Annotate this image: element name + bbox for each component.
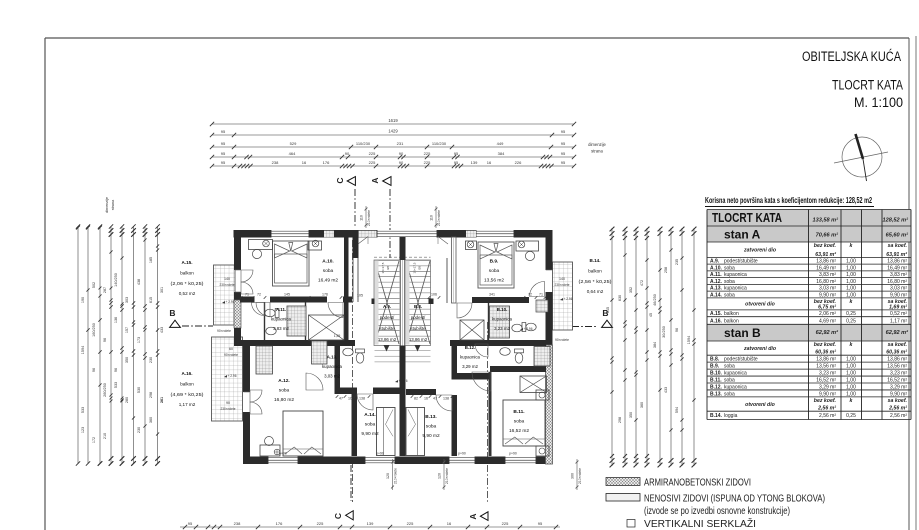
svg-text:449: 449 <box>497 141 504 146</box>
svg-text:13,56 m²: 13,56 m² <box>816 364 836 370</box>
svg-text:3,29 m²: 3,29 m² <box>890 384 907 390</box>
svg-text:kupaonica: kupaonica <box>492 317 513 322</box>
svg-text:45: 45 <box>649 313 653 317</box>
svg-text:136: 136 <box>114 317 118 323</box>
svg-text:176: 176 <box>276 521 283 526</box>
svg-text:1619: 1619 <box>388 118 398 123</box>
svg-text:B.9.: B.9. <box>490 259 499 265</box>
svg-text:138: 138 <box>443 397 449 401</box>
svg-text:B.11.: B.11. <box>513 409 524 415</box>
svg-text:95: 95 <box>221 141 226 146</box>
svg-text:63,91 m²: 63,91 m² <box>815 252 836 258</box>
svg-text:95: 95 <box>561 151 566 156</box>
svg-text:96: 96 <box>675 328 679 332</box>
svg-text:16,80 m²: 16,80 m² <box>887 279 907 285</box>
svg-text:VERTIKALNI SERKLAŽI: VERTIKALNI SERKLAŽI <box>644 517 756 530</box>
svg-text:A.10.: A.10. <box>322 259 333 265</box>
svg-text:kupaonica: kupaonica <box>460 355 481 360</box>
svg-text:120: 120 <box>438 473 442 479</box>
svg-text:13,56 m²: 13,56 m² <box>887 364 907 370</box>
svg-text:96: 96 <box>114 368 118 372</box>
svg-text:Korisna neto površina kata s k: Korisna neto površina kata s koeficijent… <box>705 195 872 205</box>
svg-text:A: A <box>468 513 478 519</box>
svg-text:3,83 m²: 3,83 m² <box>890 272 907 278</box>
svg-text:230×rolete: 230×rolete <box>220 283 235 287</box>
svg-text:/28: /28 <box>418 266 422 271</box>
svg-text:90×rolete: 90×rolete <box>555 338 569 342</box>
svg-text:95: 95 <box>188 521 193 526</box>
svg-text:172: 172 <box>92 437 96 443</box>
svg-text:16,80 m2: 16,80 m2 <box>274 397 294 403</box>
svg-text:615: 615 <box>606 307 610 313</box>
svg-text:3,83 m2: 3,83 m2 <box>273 326 289 331</box>
svg-text:13,86 m2: 13,86 m2 <box>409 337 428 342</box>
svg-text:128,52 m²: 128,52 m² <box>883 217 909 224</box>
svg-text:podest/stubište: podest/stubište <box>724 259 758 265</box>
svg-text:235: 235 <box>675 259 679 265</box>
svg-text:225: 225 <box>317 521 324 526</box>
svg-text:0,52 m2: 0,52 m2 <box>179 291 196 296</box>
svg-text:1,00: 1,00 <box>846 272 856 278</box>
svg-text:533: 533 <box>81 407 85 413</box>
svg-text:3,23 m2: 3,23 m2 <box>494 326 510 331</box>
svg-text:(4,69 * k0,25): (4,69 * k0,25) <box>171 392 205 397</box>
svg-text:0,25: 0,25 <box>846 318 856 324</box>
svg-text:1429: 1429 <box>388 129 398 134</box>
svg-text:soba: soba <box>489 268 500 274</box>
svg-text:46/250: 46/250 <box>653 294 657 306</box>
svg-text:433: 433 <box>160 327 164 333</box>
svg-text:1,17 m2: 1,17 m2 <box>179 402 196 407</box>
svg-text:zatvoreni dio: zatvoreni dio <box>743 248 776 254</box>
svg-text:2,56 m²: 2,56 m² <box>888 406 907 412</box>
svg-text:287: 287 <box>103 287 107 293</box>
svg-text:533: 533 <box>114 382 118 388</box>
svg-text:podest/stubište: podest/stubište <box>724 357 758 363</box>
svg-text:90: 90 <box>226 401 230 405</box>
svg-text:strana: strana <box>111 199 115 210</box>
svg-text:B.13.: B.13. <box>710 391 723 397</box>
svg-text:71: 71 <box>539 293 543 297</box>
svg-text:1,00: 1,00 <box>846 371 856 377</box>
svg-text:16,49 m²: 16,49 m² <box>887 265 907 271</box>
svg-text:C: C <box>335 177 345 183</box>
svg-text:303: 303 <box>125 297 129 303</box>
svg-text:10: 10 <box>348 397 352 401</box>
svg-text:B.8.: B.8. <box>710 357 720 363</box>
svg-text:B.12.: B.12. <box>465 345 476 350</box>
svg-text:B.14.: B.14. <box>710 413 723 419</box>
svg-text:soba: soba <box>724 279 735 285</box>
svg-text:B.14.: B.14. <box>590 258 601 263</box>
svg-text:145: 145 <box>284 293 290 297</box>
svg-text:226: 226 <box>515 160 522 165</box>
svg-text:otvoreni dio: otvoreni dio <box>745 402 775 408</box>
svg-text:soba: soba <box>724 292 735 298</box>
svg-text:502: 502 <box>92 282 96 288</box>
svg-text:258: 258 <box>664 267 668 273</box>
svg-text:13,56 m2: 13,56 m2 <box>484 278 504 284</box>
svg-text:3,83 m²: 3,83 m² <box>819 272 836 278</box>
svg-text:139: 139 <box>471 160 478 165</box>
svg-text:16: 16 <box>447 521 452 526</box>
svg-text:soba: soba <box>365 422 376 428</box>
svg-text:A.12.: A.12. <box>278 378 289 384</box>
svg-text:384: 384 <box>653 342 657 348</box>
svg-text:16,49 m²: 16,49 m² <box>816 265 836 271</box>
svg-text:70,66 m²: 70,66 m² <box>816 232 839 239</box>
svg-text:13,86 m²: 13,86 m² <box>816 259 836 265</box>
svg-text:soba: soba <box>279 388 290 394</box>
svg-text:225: 225 <box>424 160 431 165</box>
svg-text:OBITELJSKA KUĆA: OBITELJSKA KUĆA <box>802 48 901 65</box>
svg-text:NENOSIVI ZIDOVI (ISPUNA OD YTO: NENOSIVI ZIDOVI (ISPUNA OD YTONG BLOKOVA… <box>644 494 825 505</box>
svg-text:TLOCRT KATA: TLOCRT KATA <box>712 211 782 225</box>
svg-text:298: 298 <box>149 392 153 398</box>
svg-text:p+90: p+90 <box>458 452 466 456</box>
svg-text:p+90: p+90 <box>376 452 384 456</box>
svg-text:soba: soba <box>724 377 735 383</box>
svg-text:300: 300 <box>571 473 575 479</box>
svg-text:A.13.: A.13. <box>327 355 338 360</box>
svg-text:B.10.: B.10. <box>497 307 508 312</box>
svg-text:90: 90 <box>399 151 404 156</box>
svg-text:190: 190 <box>81 297 85 303</box>
svg-text:157: 157 <box>125 327 129 333</box>
svg-text:95: 95 <box>454 160 459 165</box>
svg-text:15×17,5: 15×17,5 <box>413 262 417 273</box>
svg-text:82: 82 <box>414 397 418 401</box>
svg-text:1,00: 1,00 <box>846 286 856 292</box>
svg-text:soba: soba <box>724 391 735 397</box>
svg-text:95: 95 <box>561 129 566 134</box>
svg-text:9,90 m²: 9,90 m² <box>819 292 836 298</box>
svg-text:A.16.: A.16. <box>182 371 193 376</box>
svg-text:90: 90 <box>399 160 404 165</box>
svg-text:105: 105 <box>357 294 363 298</box>
svg-text:1,00: 1,00 <box>846 364 856 370</box>
svg-text:9,90 m2: 9,90 m2 <box>422 433 440 439</box>
svg-text:3,03 m²: 3,03 m² <box>819 286 836 292</box>
svg-text:dimenzije: dimenzije <box>105 197 109 213</box>
svg-text:3,29 m2: 3,29 m2 <box>462 364 478 369</box>
svg-text:3,03 m2: 3,03 m2 <box>324 374 340 379</box>
svg-text:bez koef.: bez koef. <box>814 342 836 348</box>
svg-text:120: 120 <box>386 473 390 479</box>
svg-text:A.10.: A.10. <box>710 265 723 271</box>
svg-text:0,52 m²: 0,52 m² <box>890 311 907 317</box>
svg-text:433: 433 <box>664 387 668 393</box>
svg-text:140: 140 <box>224 277 230 281</box>
svg-text:138: 138 <box>359 397 365 401</box>
svg-text:(2,56 * k0,25): (2,56 * k0,25) <box>579 279 613 284</box>
svg-text:210×rolete: 210×rolete <box>367 210 371 226</box>
svg-text:otvoreni dio: otvoreni dio <box>745 302 775 308</box>
svg-text:1,00: 1,00 <box>846 377 856 383</box>
svg-text:133,58 m²: 133,58 m² <box>813 217 839 224</box>
svg-text:464: 464 <box>289 151 296 156</box>
svg-text:176: 176 <box>323 160 330 165</box>
svg-text:63,91 m²: 63,91 m² <box>886 252 907 258</box>
svg-text:C: C <box>333 513 343 519</box>
svg-text:231: 231 <box>397 141 404 146</box>
svg-text:/28: /28 <box>386 266 390 271</box>
svg-text:kupaonica: kupaonica <box>271 317 292 322</box>
svg-text:A.11.: A.11. <box>276 307 286 312</box>
svg-text:M. 1:100: M. 1:100 <box>854 95 903 111</box>
svg-text:+ 2.96: + 2.96 <box>564 297 573 301</box>
svg-text:3,29 m²: 3,29 m² <box>819 384 836 390</box>
svg-text:2,56 m²: 2,56 m² <box>819 413 836 419</box>
svg-text:238: 238 <box>272 160 279 165</box>
svg-text:16: 16 <box>424 397 428 401</box>
svg-text:1,59: 1,59 <box>334 334 341 338</box>
svg-text:3,03 m²: 3,03 m² <box>890 286 907 292</box>
svg-text:3,23 m²: 3,23 m² <box>890 371 907 377</box>
svg-text:15×17,5: 15×17,5 <box>381 262 385 273</box>
svg-text:65,60 m²: 65,60 m² <box>886 232 909 239</box>
svg-text:230: 230 <box>149 357 153 363</box>
svg-text:B.11.: B.11. <box>710 377 722 383</box>
svg-text:stan A: stan A <box>724 228 761 242</box>
svg-text:472: 472 <box>640 280 644 286</box>
svg-text:bez koef.: bez koef. <box>814 398 836 404</box>
svg-text:balkon: balkon <box>724 311 739 317</box>
svg-text:1,00: 1,00 <box>846 292 856 298</box>
svg-text:90: 90 <box>345 151 350 156</box>
svg-text:238: 238 <box>234 521 241 526</box>
svg-text:210×rolete: 210×rolete <box>445 468 449 484</box>
svg-text:30/250: 30/250 <box>662 326 666 338</box>
svg-text:110/230: 110/230 <box>356 141 371 146</box>
svg-text:A.15.: A.15. <box>182 260 193 265</box>
svg-text:A.15.: A.15. <box>710 311 723 317</box>
svg-text:360: 360 <box>640 402 644 408</box>
svg-text:210: 210 <box>103 433 107 439</box>
svg-text:60,36 m²: 60,36 m² <box>815 350 836 356</box>
svg-text:16,49 m2: 16,49 m2 <box>318 278 338 284</box>
svg-text:615: 615 <box>149 297 153 303</box>
svg-text:13,86 m²: 13,86 m² <box>887 357 907 363</box>
svg-text:230×rolete: 230×rolete <box>221 407 236 411</box>
svg-text:B.10.: B.10. <box>710 371 723 377</box>
svg-text:47: 47 <box>339 397 343 401</box>
svg-text:balkon: balkon <box>180 382 194 387</box>
svg-text:176: 176 <box>322 293 328 297</box>
svg-text:strana: strana <box>591 149 603 154</box>
svg-text:90×rolete: 90×rolete <box>217 329 231 333</box>
svg-text:0,64 m2: 0,64 m2 <box>587 289 604 294</box>
svg-text:podest/: podest/ <box>380 315 395 320</box>
svg-text:9,90 m²: 9,90 m² <box>890 391 907 397</box>
svg-text:210×rolete: 210×rolete <box>437 210 441 226</box>
svg-text:dimenzije: dimenzije <box>588 142 606 147</box>
svg-text:110: 110 <box>430 215 434 221</box>
svg-text:sa koef.: sa koef. <box>888 243 907 249</box>
svg-text:95: 95 <box>221 151 226 156</box>
svg-text:sa koef.: sa koef. <box>888 398 907 404</box>
svg-text:stubište: stubište <box>379 326 395 331</box>
svg-text:225: 225 <box>369 160 376 165</box>
svg-text:529: 529 <box>290 141 297 146</box>
svg-text:72: 72 <box>528 293 532 297</box>
svg-text:6,75 m²: 6,75 m² <box>818 304 836 310</box>
svg-text:sa koef.: sa koef. <box>888 342 907 348</box>
svg-text:95: 95 <box>538 521 543 526</box>
svg-text:A.16.: A.16. <box>710 318 723 324</box>
svg-text:kupaonica: kupaonica <box>724 272 747 278</box>
svg-text:9,90 m²: 9,90 m² <box>819 391 836 397</box>
svg-text:balkon: balkon <box>180 271 194 276</box>
svg-text:kupaonica: kupaonica <box>724 286 747 292</box>
svg-text:soba: soba <box>514 419 525 425</box>
svg-text:438: 438 <box>137 279 141 285</box>
svg-text:16: 16 <box>302 160 307 165</box>
svg-text:soba: soba <box>724 265 735 271</box>
svg-text:225: 225 <box>424 151 431 156</box>
svg-text:47: 47 <box>433 397 437 401</box>
svg-text:95: 95 <box>561 141 566 146</box>
svg-text:A.12.: A.12. <box>710 279 723 285</box>
svg-text:13,86 m2: 13,86 m2 <box>378 337 397 342</box>
svg-text:60: 60 <box>229 347 233 351</box>
svg-text:95: 95 <box>454 151 459 156</box>
svg-text:kupaonica: kupaonica <box>724 384 747 390</box>
svg-text:123: 123 <box>81 427 85 433</box>
svg-text:225: 225 <box>407 521 414 526</box>
svg-text:173: 173 <box>137 337 141 343</box>
svg-text:16,52 m²: 16,52 m² <box>887 377 907 383</box>
svg-text:72: 72 <box>257 293 261 297</box>
svg-text:16,80 m²: 16,80 m² <box>816 279 836 285</box>
svg-text:13,86 m²: 13,86 m² <box>816 357 836 363</box>
svg-text:kupaonica: kupaonica <box>322 364 343 369</box>
svg-text:96: 96 <box>92 368 96 372</box>
svg-text:280: 280 <box>125 397 129 403</box>
svg-text:bez koef.: bez koef. <box>814 243 836 249</box>
svg-text:62,92 m²: 62,92 m² <box>816 329 839 336</box>
svg-text:+ 2.96: + 2.96 <box>226 300 235 304</box>
svg-text:139: 139 <box>367 521 374 526</box>
svg-text:A: A <box>370 177 380 183</box>
svg-text:352: 352 <box>629 287 633 293</box>
svg-text:341: 341 <box>489 293 495 297</box>
svg-text:stan B: stan B <box>724 326 761 340</box>
svg-text:kupaonica: kupaonica <box>724 371 747 377</box>
svg-text:A.14.: A.14. <box>710 292 723 298</box>
svg-text:A.9.: A.9. <box>383 304 391 309</box>
svg-text:4,69 m²: 4,69 m² <box>819 318 836 324</box>
svg-text:1,17 m²: 1,17 m² <box>890 318 907 324</box>
svg-text:225: 225 <box>502 521 509 526</box>
svg-text:1,00: 1,00 <box>846 259 856 265</box>
svg-text:A.14.: A.14. <box>364 412 375 418</box>
svg-text:(izvode se po izvedbi osnovne: (izvode se po izvedbi osnovne konstrukci… <box>644 506 790 517</box>
svg-text:B.8.: B.8. <box>414 304 422 309</box>
svg-text:soba: soba <box>724 364 735 370</box>
svg-text:1,00: 1,00 <box>846 265 856 271</box>
svg-text:zatvoreni dio: zatvoreni dio <box>743 346 776 352</box>
svg-text:230: 230 <box>137 427 141 433</box>
svg-text:210×rolete: 210×rolete <box>394 468 398 484</box>
svg-text:110: 110 <box>360 215 364 221</box>
svg-text:210×rolete: 210×rolete <box>578 468 582 484</box>
svg-text:230×rolete: 230×rolete <box>555 283 570 287</box>
svg-text:soba: soba <box>323 268 334 274</box>
svg-text:loggia: loggia <box>724 413 738 419</box>
svg-text:298: 298 <box>618 417 622 423</box>
svg-text:110/230: 110/230 <box>432 141 447 146</box>
svg-text:140/250: 140/250 <box>114 273 118 287</box>
svg-text:530: 530 <box>137 387 141 393</box>
svg-text:1,00: 1,00 <box>846 357 856 363</box>
svg-text:A.13.: A.13. <box>710 286 723 292</box>
svg-text:1,00: 1,00 <box>846 384 856 390</box>
svg-text:160/250: 160/250 <box>92 323 96 337</box>
svg-text:0,25: 0,25 <box>846 311 856 317</box>
svg-text:balkon: balkon <box>724 318 739 324</box>
svg-text:1,00: 1,00 <box>846 279 856 285</box>
svg-text:balkon: balkon <box>588 269 602 274</box>
svg-text:106: 106 <box>431 293 437 297</box>
svg-text:B: B <box>169 308 175 318</box>
svg-text:(2,06 * k0,25): (2,06 * k0,25) <box>171 281 205 286</box>
svg-text:90×rolete: 90×rolete <box>224 353 238 357</box>
svg-text:360: 360 <box>149 417 153 423</box>
svg-text:260/250: 260/250 <box>103 383 107 397</box>
svg-text:301: 301 <box>160 287 164 293</box>
svg-text:B.9.: B.9. <box>710 364 720 370</box>
svg-text:62,92 m²: 62,92 m² <box>886 329 909 336</box>
svg-text:185: 185 <box>149 257 153 263</box>
svg-text:B.12.: B.12. <box>710 384 723 390</box>
svg-text:1,69 m²: 1,69 m² <box>889 304 907 310</box>
svg-text:16: 16 <box>487 160 492 165</box>
svg-text:350: 350 <box>125 357 129 363</box>
svg-text:225: 225 <box>369 151 376 156</box>
svg-text:71: 71 <box>245 293 249 297</box>
svg-text:2,56 m²: 2,56 m² <box>817 406 836 412</box>
svg-text:95: 95 <box>221 160 226 165</box>
svg-text:16,52 m²: 16,52 m² <box>816 377 836 383</box>
svg-text:A.11.: A.11. <box>710 272 722 278</box>
svg-text:13,86 m²: 13,86 m² <box>887 259 907 265</box>
svg-text:95: 95 <box>221 129 226 134</box>
svg-text:3,23 m²: 3,23 m² <box>819 371 836 377</box>
svg-text:16,52 m2: 16,52 m2 <box>509 428 529 434</box>
svg-text:60,36 m²: 60,36 m² <box>886 350 907 356</box>
svg-text:soba: soba <box>426 424 437 430</box>
svg-text:2,06 m²: 2,06 m² <box>819 311 836 317</box>
svg-text:1594: 1594 <box>81 346 85 354</box>
svg-text:1594: 1594 <box>687 336 691 344</box>
svg-text:p+90: p+90 <box>509 452 517 456</box>
svg-text:594: 594 <box>675 407 679 413</box>
svg-text:A.9.: A.9. <box>710 259 720 265</box>
svg-text:ARMIRANOBETONSKI ZIDOVI: ARMIRANOBETONSKI ZIDOVI <box>644 478 751 489</box>
svg-text:630: 630 <box>618 295 622 301</box>
svg-text:95: 95 <box>561 160 566 165</box>
svg-text:384: 384 <box>498 151 505 156</box>
svg-text:stubište: stubište <box>410 326 426 331</box>
svg-text:podest/: podest/ <box>411 315 426 320</box>
svg-text:TLOCRT KATA: TLOCRT KATA <box>832 78 903 94</box>
svg-text:9,90 m2: 9,90 m2 <box>361 431 379 437</box>
svg-text:0,25: 0,25 <box>846 413 856 419</box>
svg-text:1,00: 1,00 <box>846 391 856 397</box>
svg-text:140: 140 <box>559 277 565 281</box>
svg-text:350: 350 <box>629 412 633 418</box>
